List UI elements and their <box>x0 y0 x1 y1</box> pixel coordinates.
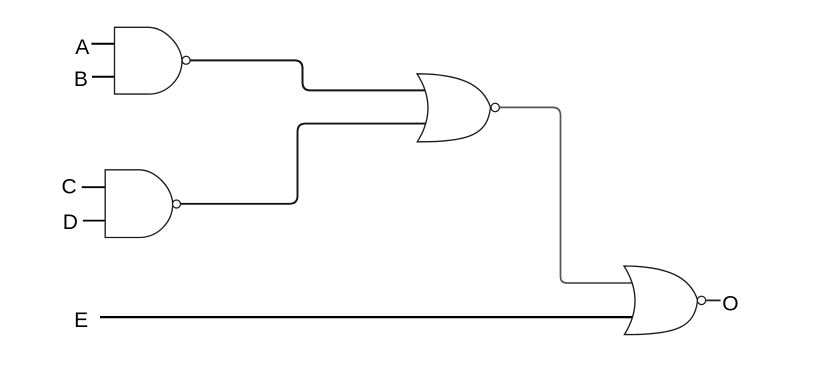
NAND gate U2 output bubble <box>173 200 181 208</box>
NAND gate U2 (inputs C,D) <box>105 170 173 238</box>
wire input B stub <box>92 76 126 78</box>
wire NOR1 output to NOR2 top input <box>500 107 640 283</box>
svg-text:D: D <box>63 211 78 234</box>
wire NAND1 output to NOR1 top input <box>190 60 432 90</box>
NOR gate U4 (output stage) <box>624 266 698 335</box>
wire E long input <box>100 316 640 318</box>
NAND gate U1 (inputs A,B) <box>115 27 183 94</box>
wire NOR2 output stub <box>706 299 720 301</box>
svg-text:O: O <box>722 293 738 316</box>
svg-text:C: C <box>62 176 77 199</box>
svg-text:A: A <box>75 36 89 59</box>
svg-text:E: E <box>74 309 88 332</box>
wire input D stub <box>83 220 116 222</box>
svg-text:B: B <box>74 68 88 91</box>
NOR gate U4 output bubble <box>697 296 705 304</box>
wire input A stub <box>91 43 126 45</box>
NAND gate U1 output bubble <box>182 56 190 64</box>
NOR gate U3 (middle) <box>417 74 491 142</box>
wire input C stub <box>82 186 116 188</box>
wire NAND2 output to NOR1 bottom input <box>181 124 432 204</box>
NOR gate U3 output bubble <box>491 103 499 111</box>
